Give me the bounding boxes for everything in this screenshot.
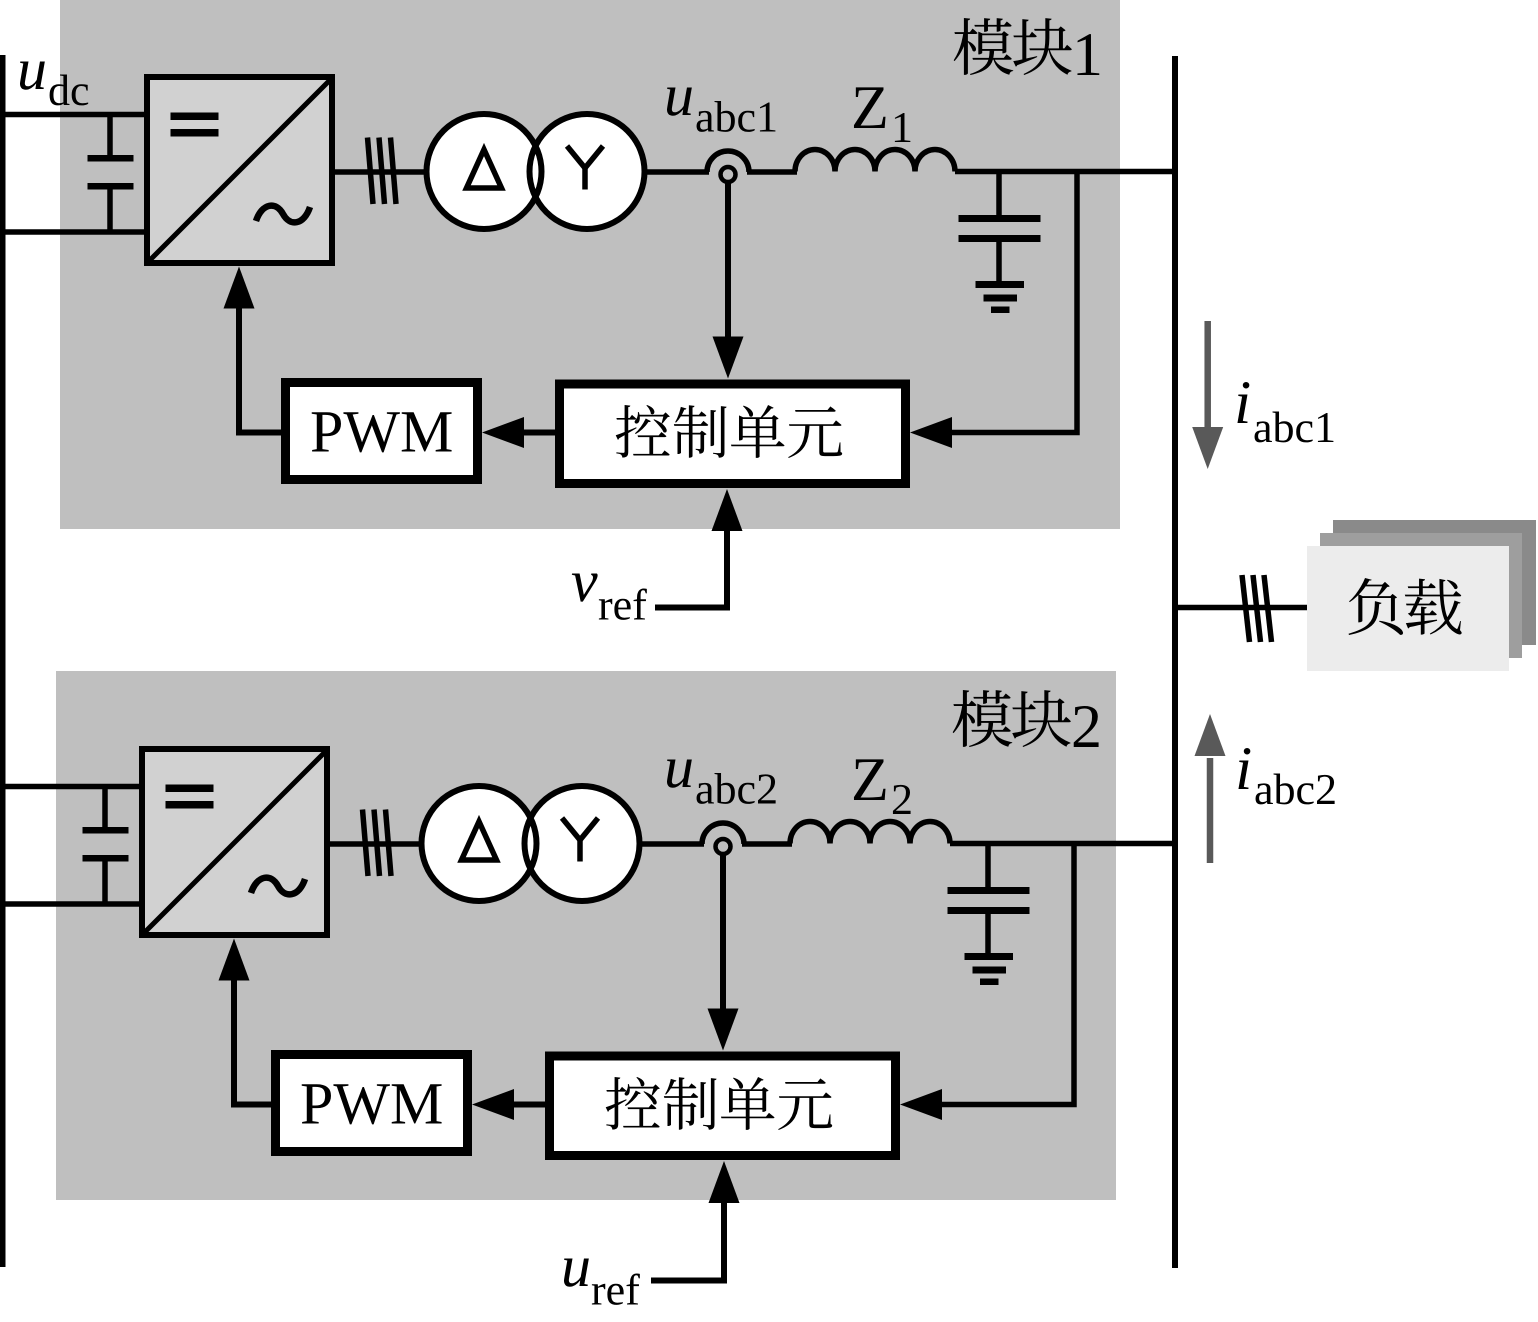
capacitor C2 (AC filter) <box>948 844 1030 956</box>
wire: inductor Z2 to AC bus <box>950 841 1178 847</box>
transformer T1 (delta-wye) <box>427 114 645 229</box>
wire: PWM to inverter gate module 1 <box>239 303 281 433</box>
inductor Z2 <box>790 822 950 844</box>
inductor Z1 <box>795 150 955 172</box>
wire: current/voltage feedback tap module 1 <box>950 172 1077 433</box>
three-phase marker (inverter output module 2) <box>363 810 392 877</box>
wire: transformer T1 to node <box>644 169 709 175</box>
wire: node to inductor Z1 <box>747 169 797 175</box>
label control-unit text module 1 <box>616 405 842 458</box>
arrow into inverter U2 module 2 <box>219 939 250 981</box>
arrow into PWM module 2 <box>472 1089 514 1120</box>
label control-unit text module 2 <box>606 1077 832 1130</box>
arrow i_abc2 (module 2 output current, upward) <box>1195 714 1226 863</box>
label u_abc1 <box>667 87 692 115</box>
module 1 background panel <box>60 0 1120 529</box>
label Z2 <box>854 759 886 800</box>
wire: PWM to inverter gate module 2 <box>234 975 271 1105</box>
capacitor Cdc2 (DC-link) <box>83 787 129 905</box>
wire: AC bus to load <box>1178 605 1308 611</box>
wire: DC positive rail module 2 <box>0 784 142 790</box>
wire: inverter U2 AC output <box>330 841 425 847</box>
arrow i_abc1 (module 1 output current, downward) <box>1192 321 1223 469</box>
inverter U2 (DC/AC converter) <box>142 749 327 935</box>
ground (filter capacitor C2) <box>965 953 1014 985</box>
load block (stacked pages) <box>1307 520 1536 671</box>
label u_abc2 <box>667 759 692 787</box>
wire: DC negative rail module 1 <box>0 229 147 235</box>
wire: current/voltage feedback tap module 2 <box>940 844 1074 1105</box>
arrow into control unit top module 1 <box>713 337 744 379</box>
label module-2 title <box>953 690 1071 747</box>
module 2 background panel <box>56 671 1116 1200</box>
wire: node u_abc2 down to control unit <box>720 853 726 1011</box>
wire: node u_abc1 down to control unit <box>725 181 731 339</box>
label u_dc <box>20 61 45 89</box>
wire: DC negative rail module 2 <box>0 901 142 907</box>
PWM block module 1 <box>286 383 478 480</box>
wire: control unit to PWM module 1 <box>522 430 555 436</box>
wire: control unit to PWM module 2 <box>512 1102 545 1108</box>
label load text <box>1349 578 1462 635</box>
label i_abc1 <box>1237 382 1249 423</box>
label u_ref <box>564 1258 589 1286</box>
wire: transformer T2 to node <box>639 841 704 847</box>
arrow into inverter U1 module 1 <box>224 267 255 309</box>
inverter U1 (DC/AC converter) <box>147 77 332 263</box>
wire: v_ref input <box>655 529 727 608</box>
label module-1 title <box>954 18 1072 75</box>
arrow into PWM module 1 <box>482 417 524 448</box>
node u_abc1 (measurement point with hop) <box>707 151 749 182</box>
control unit block module 1 <box>560 384 906 484</box>
arrow u_ref into control unit 2 <box>709 1161 740 1203</box>
wire: DC positive rail module 1 <box>0 112 147 118</box>
arrow v_ref into control unit 1 <box>712 489 743 531</box>
label i_abc2 <box>1238 748 1250 789</box>
transformer T2 (delta-wye) <box>422 786 640 901</box>
wire: u_ref input <box>651 1201 724 1281</box>
AC bus (right vertical) <box>1172 56 1178 1268</box>
node u_abc2 (measurement point with hop) <box>702 823 744 854</box>
capacitor C1 (AC filter) <box>959 172 1041 284</box>
wire: node to inductor Z2 <box>742 841 792 847</box>
arrow into control unit top module 2 <box>708 1009 739 1051</box>
three-phase marker (inverter output module 1) <box>368 138 397 205</box>
label v_ref <box>572 573 598 601</box>
control unit block module 2 <box>550 1056 896 1156</box>
PWM block module 2 <box>276 1055 468 1152</box>
arrow into control unit right side module 2 <box>900 1089 942 1120</box>
arrow into control unit right side module 1 <box>910 417 952 448</box>
capacitor Cdc1 (DC-link) <box>88 115 134 233</box>
ground (filter capacitor C1) <box>976 281 1025 313</box>
DC bus (left vertical) <box>0 55 6 1267</box>
wire: inverter U1 AC output <box>335 169 430 175</box>
label Z1 <box>854 87 886 128</box>
three-phase marker (load feeder) <box>1242 575 1272 642</box>
wire: inductor Z1 to AC bus <box>955 169 1178 175</box>
